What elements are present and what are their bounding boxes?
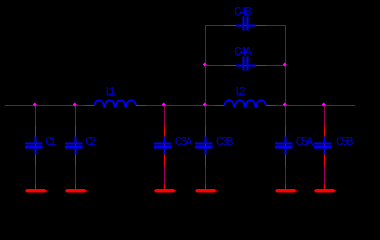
node junction at C3A [162,103,166,107]
ground for C2 [65,185,87,193]
wire vertical C3B column and branch riser left [205,26,207,190]
svg-text:C3A: C3A [175,135,193,149]
svg-text:C5A: C5A [296,135,314,149]
wire right of L2 [276,105,356,107]
svg-text:C3B: C3B [216,135,234,149]
svg-text:C4B: C4B [234,5,252,19]
capacitor C4B [225,5,267,31]
inductor L2 [215,85,277,107]
node junction C4A left [203,63,207,67]
wire vertical drop C5B column [324,106,326,190]
wire branch top horizontal (C4B rung) [205,25,286,27]
svg-text:C5B: C5B [336,135,354,149]
capacitor C3A [154,126,193,166]
capacitor C3B [195,126,234,166]
wire between L1 and L2 nets [146,105,216,107]
ground for C3B [195,185,217,193]
node junction at C3B riser [203,103,207,107]
wire vertical drop C1 column [35,106,37,190]
node junction at C1 [33,103,37,107]
node junction at C5B [322,103,326,107]
svg-text:C4A: C4A [234,45,252,59]
wire main horizontal net [5,105,85,107]
capacitor C5B [314,126,354,166]
capacitor C1 [25,126,56,166]
node junction at C5A riser [283,103,287,107]
node junction at C2 [73,103,77,107]
capacitor C2 [65,126,96,166]
inductor L1 [85,85,147,107]
svg-text:L1: L1 [105,85,116,99]
svg-text:C2: C2 [85,135,96,149]
wire vertical C5A column and branch riser right [285,26,287,190]
wire vertical drop C2 column [75,106,77,190]
ground for C5B [314,185,336,193]
node junction C4A right [283,63,287,67]
capacitor C4A [225,45,267,71]
svg-text:C1: C1 [45,135,56,149]
ground for C1 [25,185,47,193]
svg-text:L2: L2 [235,85,246,99]
wire vertical drop C3A column [164,106,166,190]
wire branch middle horizontal (C4A rung) [205,65,286,67]
capacitor C5A [275,126,314,166]
ground for C5A [275,185,297,193]
ground for C3A [154,185,176,193]
